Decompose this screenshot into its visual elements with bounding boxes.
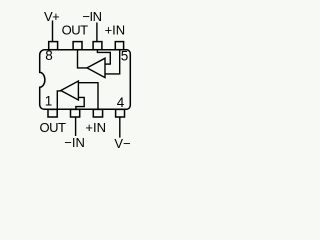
svg-text:+IN: +IN	[105, 22, 126, 37]
wire pin3 to op-amp A non-inverting input	[78, 83, 98, 110]
pin 3 stub	[93, 109, 102, 117]
op-amp B upper input stub	[105, 63, 111, 65]
wire -IN to pin 6	[96, 23, 98, 43]
svg-text:V−: V−	[114, 136, 130, 151]
svg-text:+IN: +IN	[85, 120, 106, 135]
wire pin7 to op-amp B output	[78, 50, 87, 68]
wire op-amp A output to pin1	[57, 91, 61, 109]
IC body outline with notch	[40, 50, 131, 110]
pin 7 stub	[73, 42, 82, 50]
svg-text:V+: V+	[44, 9, 59, 24]
pin 1 stub	[48, 109, 57, 117]
wire pin5 to op-amp B non-inverting input	[105, 50, 120, 74]
svg-text:8: 8	[45, 48, 53, 63]
svg-text:5: 5	[121, 48, 129, 63]
wire pin2 to -IN label	[75, 117, 77, 136]
pin 6 stub	[93, 42, 102, 50]
svg-text:OUT: OUT	[62, 22, 89, 37]
pin 8 stub	[49, 42, 58, 50]
wire pin6 staircase to op-amp B inverting input	[97, 50, 110, 64]
svg-text:1: 1	[45, 94, 53, 109]
svg-text:4: 4	[117, 95, 125, 110]
pin 5 stub	[115, 42, 123, 50]
op-amp A triangle	[61, 81, 79, 100]
wire pin4 to V- label	[119, 117, 121, 138]
svg-text:OUT: OUT	[40, 120, 67, 135]
svg-text:−IN: −IN	[64, 135, 85, 150]
pin 4 stub	[116, 109, 125, 117]
wire V+ to pin 8	[52, 21, 54, 43]
pin 2 stub	[71, 109, 80, 117]
wire pin2 staircase to op-amp A inverting input	[76, 97, 84, 109]
op-amp B triangle	[87, 58, 105, 77]
